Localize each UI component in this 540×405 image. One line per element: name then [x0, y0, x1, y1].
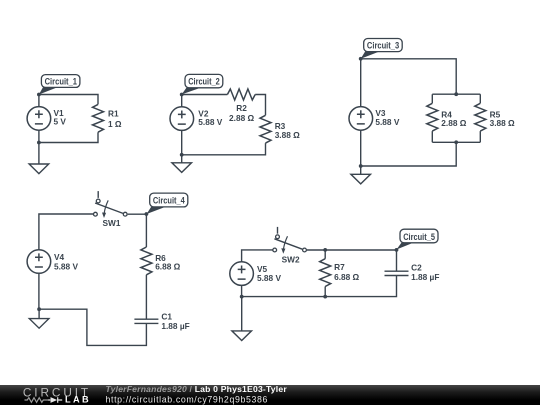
svg-text:5.88 V: 5.88 V	[54, 261, 78, 271]
svg-text:2.88 Ω: 2.88 Ω	[441, 118, 466, 128]
svg-text:2.88 Ω: 2.88 Ω	[229, 113, 254, 123]
svg-text:5.88 V: 5.88 V	[375, 117, 399, 127]
svg-text:6.88 Ω: 6.88 Ω	[334, 272, 359, 282]
svg-text:LAB: LAB	[65, 395, 91, 405]
svg-text:1.88 µF: 1.88 µF	[161, 321, 189, 331]
svg-text:3.88 Ω: 3.88 Ω	[275, 130, 300, 140]
svg-text:R1: R1	[108, 109, 119, 119]
svg-text:Circuit_2: Circuit_2	[188, 77, 220, 87]
svg-text:http://circuitlab.com/cy79h2q9: http://circuitlab.com/cy79h2q9b5386	[106, 395, 269, 405]
svg-text:TylerFernandes920 / Lab 0 Phys: TylerFernandes920 / Lab 0 Phys1E03-Tyler	[106, 384, 288, 394]
svg-text:3.88 Ω: 3.88 Ω	[490, 118, 515, 128]
svg-text:Circuit_3: Circuit_3	[367, 40, 399, 50]
svg-text:R7: R7	[334, 262, 345, 272]
svg-text:1 Ω: 1 Ω	[108, 119, 122, 129]
svg-text:5.88 V: 5.88 V	[198, 117, 222, 127]
svg-text:Circuit_4: Circuit_4	[153, 196, 186, 206]
svg-text:1.88 µF: 1.88 µF	[411, 272, 439, 282]
svg-text:R2: R2	[236, 103, 247, 113]
svg-text:5 V: 5 V	[54, 117, 67, 127]
svg-text:C1: C1	[161, 311, 172, 321]
svg-text:SW1: SW1	[103, 218, 121, 228]
svg-text:C2: C2	[411, 263, 422, 273]
svg-text:Circuit_5: Circuit_5	[403, 232, 435, 242]
svg-text:Circuit_1: Circuit_1	[45, 76, 77, 86]
svg-text:SW2: SW2	[282, 254, 300, 264]
svg-text:6.88 Ω: 6.88 Ω	[155, 262, 180, 272]
svg-text:5.88 V: 5.88 V	[257, 273, 281, 283]
